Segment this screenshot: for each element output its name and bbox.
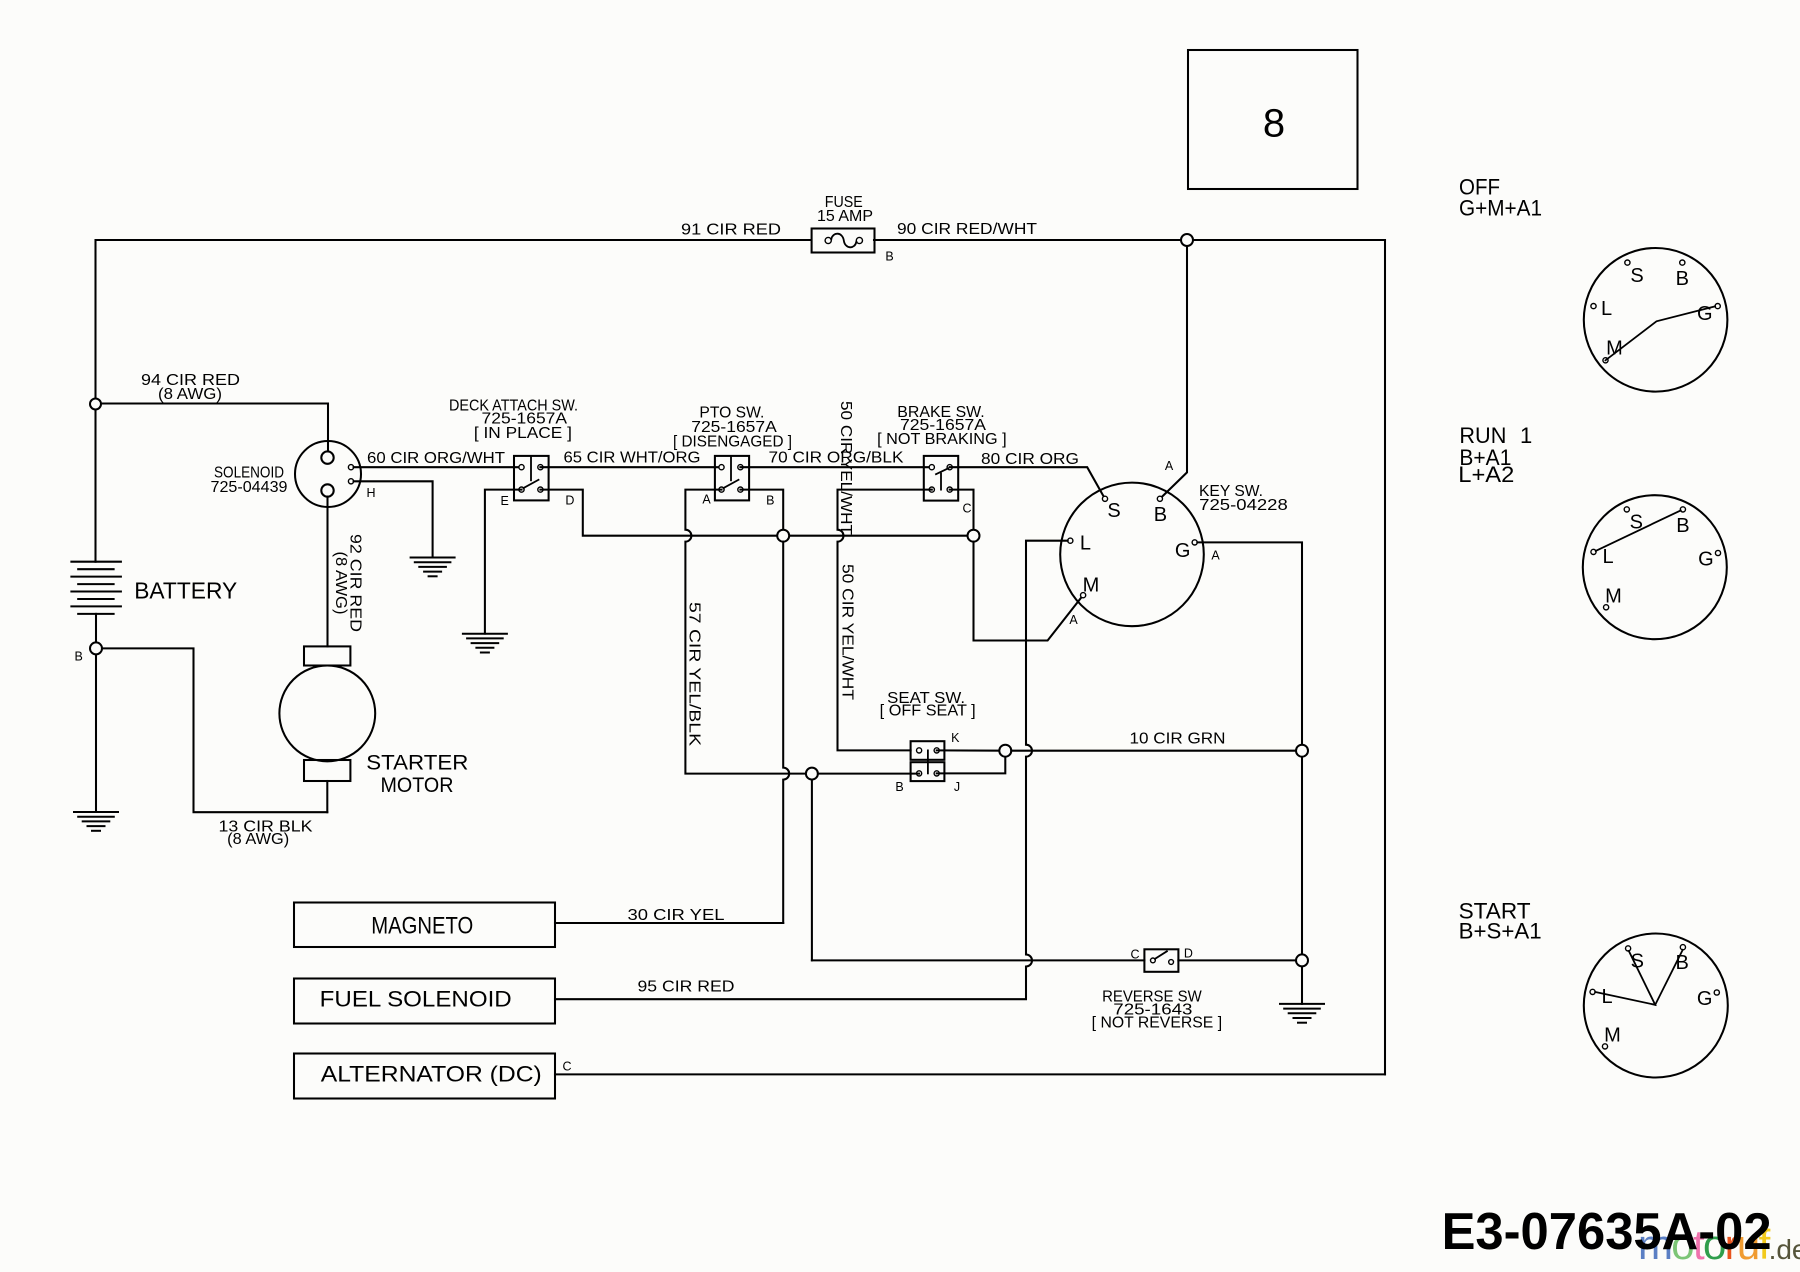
label KEY SW. 725-04228 bbox=[1199, 483, 1288, 514]
label BATTERY bbox=[134, 577, 237, 603]
svg-text:L: L bbox=[1602, 986, 1613, 1008]
svg-text:A: A bbox=[1069, 613, 1078, 627]
wire reverse switch D to bus node bbox=[1178, 959, 1302, 961]
svg-text:S: S bbox=[1107, 500, 1120, 522]
pin label D of reverse switch bbox=[1184, 946, 1193, 960]
svg-text:70 CIR ORG/BLK: 70 CIR ORG/BLK bbox=[769, 450, 905, 467]
label DECK ATTACH SW. 725-1657A [ IN PLACE ] bbox=[449, 398, 578, 443]
svg-text:S: S bbox=[1631, 950, 1644, 972]
wire 90 CIR RED/WHT from fuse to right bus corner bbox=[874, 239, 1385, 241]
svg-text:[ NOT BRAKING ]: [ NOT BRAKING ] bbox=[877, 431, 1007, 448]
ground for deck switch E bbox=[462, 634, 508, 653]
wire magneto riser down with hop bbox=[783, 542, 789, 923]
wire 92 CIR RED solenoid to starter motor bbox=[326, 497, 328, 647]
pin label C of alternator bbox=[562, 1059, 571, 1073]
reverse switch 725-1643 bbox=[1144, 949, 1178, 972]
svg-text:8: 8 bbox=[1263, 102, 1285, 146]
key position diagram RUN 1 bbox=[1583, 495, 1727, 639]
svg-text:10 CIR GRN: 10 CIR GRN bbox=[1130, 730, 1226, 747]
deck attach switch 725-1657A bbox=[514, 456, 549, 501]
wire battery negative down to B node and ground bbox=[95, 614, 97, 812]
alternator box bbox=[294, 1054, 555, 1099]
label 65 CIR WHT/ORG bbox=[564, 450, 701, 467]
key position diagram OFF bbox=[1584, 248, 1728, 392]
svg-text:B+S+A1: B+S+A1 bbox=[1459, 919, 1542, 944]
label 10 CIR GRN bbox=[1130, 730, 1226, 747]
svg-text:(8 AWG): (8 AWG) bbox=[158, 386, 222, 403]
svg-text:725-04228: 725-04228 bbox=[1199, 497, 1288, 514]
label 91 CIR RED bbox=[681, 222, 781, 239]
svg-text:G: G bbox=[1697, 988, 1713, 1010]
label 95 CIR RED bbox=[638, 979, 735, 996]
label BRAKE SW. 725-1657A [ NOT BRAKING ] bbox=[877, 404, 1007, 448]
wire 50 CIR YEL/WHT brake A down with hop to seat switch bbox=[838, 490, 932, 751]
ground for reverse switch bus bbox=[1279, 1004, 1325, 1023]
svg-text:B: B bbox=[1154, 504, 1167, 526]
svg-text:B: B bbox=[75, 650, 83, 664]
svg-text:B: B bbox=[1676, 268, 1689, 290]
svg-text:30 CIR YEL: 30 CIR YEL bbox=[628, 907, 725, 924]
pin label A near key switch G bbox=[1211, 549, 1220, 563]
svg-text:S: S bbox=[1630, 265, 1643, 287]
svg-text:C: C bbox=[1130, 947, 1139, 961]
pin label B of PTO switch bbox=[766, 494, 774, 508]
svg-text:M: M bbox=[1605, 586, 1622, 608]
label ALTERNATOR (DC) bbox=[321, 1062, 542, 1087]
svg-text:60 CIR ORG/WHT: 60 CIR ORG/WHT bbox=[367, 450, 506, 467]
label 70 CIR ORG/BLK bbox=[769, 450, 905, 467]
wire 70 CIR ORG/BLK PTO to brake switch bbox=[740, 466, 931, 468]
svg-text:A: A bbox=[1165, 459, 1174, 473]
svg-text:L: L bbox=[1601, 298, 1612, 320]
node junction 57 wire / seat B / reverse feed bbox=[806, 768, 818, 780]
wire deck switch D down and across to brake C node bbox=[540, 490, 973, 536]
svg-text:[ OFF SEAT ]: [ OFF SEAT ] bbox=[880, 703, 976, 720]
svg-text:MAGNETO: MAGNETO bbox=[371, 912, 473, 939]
svg-text:50 CIR YEL/WHT: 50 CIR YEL/WHT bbox=[837, 401, 854, 536]
svg-text:STARTER: STARTER bbox=[366, 751, 468, 775]
label 50 CIR YEL/WHT rotated upper bbox=[837, 401, 854, 536]
svg-text:K: K bbox=[951, 731, 960, 745]
svg-text:B: B bbox=[1676, 952, 1689, 974]
label E3-07635A-02 bbox=[1442, 1203, 1772, 1261]
wire loop from node to key switch M bbox=[974, 542, 1084, 641]
ground for battery bbox=[73, 812, 119, 831]
svg-text:91 CIR RED: 91 CIR RED bbox=[681, 222, 781, 239]
node junction brake C / deck D line bbox=[968, 530, 980, 542]
wire key switch B feed: vertical drop from top bus node and diagonal to B bbox=[1160, 240, 1187, 499]
svg-text:(8 AWG): (8 AWG) bbox=[332, 552, 349, 615]
svg-text:BATTERY: BATTERY bbox=[134, 577, 237, 603]
ground for solenoid H wire bbox=[410, 558, 456, 577]
solenoid 725-04439 bbox=[295, 441, 361, 507]
pin label K of seat switch bbox=[951, 731, 960, 745]
wire alternator to right bus bbox=[555, 1073, 1385, 1075]
fuel solenoid box bbox=[294, 979, 555, 1024]
svg-text:L+A2: L+A2 bbox=[1458, 462, 1514, 487]
svg-text:1: 1 bbox=[1520, 423, 1532, 448]
svg-text:E3-07635A-02: E3-07635A-02 bbox=[1442, 1203, 1772, 1261]
svg-text:M: M bbox=[1606, 338, 1623, 360]
OFF diagram terminal letters bbox=[1601, 265, 1713, 360]
key switch 725-04228 bbox=[1060, 483, 1204, 627]
svg-text:G: G bbox=[1175, 540, 1191, 562]
wire 10 CIR GRN to right bbox=[1011, 750, 1302, 752]
wire node to seat switch J row bbox=[818, 773, 919, 775]
pin label C of reverse switch bbox=[1130, 947, 1139, 961]
wire key switch G to right vertical bus bbox=[1197, 542, 1302, 1004]
pin label A near key switch M bbox=[1069, 613, 1078, 627]
svg-text:G: G bbox=[1698, 549, 1714, 571]
svg-text:725-04439: 725-04439 bbox=[211, 479, 288, 496]
node junction of seat switch output bbox=[999, 745, 1011, 757]
wire 94 CIR RED from node to solenoid top bbox=[101, 404, 328, 452]
wire reverse switch feed from node down and right bbox=[812, 780, 1145, 961]
svg-text:D: D bbox=[1184, 946, 1193, 960]
pin label H of solenoid bbox=[366, 486, 375, 500]
node junction on top bus bbox=[1181, 234, 1193, 246]
pin label A near key switch B feed bbox=[1165, 459, 1174, 473]
wire 60 CIR ORG/WHT solenoid to deck attach switch bbox=[354, 466, 522, 468]
wire seat K row to 10 CIR GRN node bbox=[937, 749, 1006, 751]
wire key switch L to fuel solenoid 95 CIR RED with hops bbox=[555, 541, 1068, 1000]
label OFF G+M+A1 bbox=[1459, 175, 1542, 221]
label 90 CIR RED/WHT bbox=[897, 221, 1038, 238]
label SOLENOID 725-04439 bbox=[211, 464, 288, 496]
label 30 CIR YEL bbox=[628, 907, 725, 924]
svg-text:M: M bbox=[1604, 1025, 1621, 1047]
label 80 CIR ORG bbox=[981, 451, 1079, 468]
brake switch 725-1657A bbox=[924, 456, 958, 501]
svg-text:15 AMP: 15 AMP bbox=[817, 208, 873, 225]
page number box 8 bbox=[1188, 50, 1358, 189]
svg-text:57 CIR YEL/BLK: 57 CIR YEL/BLK bbox=[686, 602, 703, 747]
svg-text:B: B bbox=[885, 249, 893, 263]
wire 65 CIR WHT/ORG deck to PTO switch bbox=[540, 466, 721, 468]
svg-text:(8 AWG): (8 AWG) bbox=[227, 831, 289, 848]
pin label C of brake switch bbox=[962, 501, 971, 515]
pin label E of deck switch bbox=[501, 494, 509, 508]
node junction PTO B / magneto riser bbox=[777, 530, 789, 542]
svg-text:65 CIR WHT/ORG: 65 CIR WHT/ORG bbox=[564, 450, 701, 467]
starter motor bbox=[279, 646, 375, 812]
wire deck switch E to ground bbox=[485, 490, 522, 634]
label FUSE bbox=[817, 194, 873, 225]
svg-text:H: H bbox=[366, 486, 375, 500]
wire 80 CIR ORG brake to key switch S bbox=[950, 467, 1105, 499]
label 94 CIR RED (8 AWG) bbox=[141, 372, 240, 403]
label MAGNETO bbox=[371, 912, 473, 939]
svg-text:50 CIR YEL/WHT: 50 CIR YEL/WHT bbox=[839, 564, 856, 701]
label PTO SW. 725-1657A [ DISENGAGED ] bbox=[673, 405, 792, 451]
label 50 CIR YEL/WHT rotated lower bbox=[839, 564, 856, 701]
svg-text:J: J bbox=[954, 780, 960, 794]
wire brake C down to node bbox=[950, 490, 974, 536]
seat switch bbox=[911, 741, 945, 781]
svg-text:G+M+A1: G+M+A1 bbox=[1459, 196, 1542, 221]
label 60 CIR ORG/WHT bbox=[367, 450, 506, 467]
wire solenoid H to ground bbox=[354, 481, 433, 557]
label RUN 1 B+A1 L+A2 bbox=[1458, 423, 1532, 487]
label 57 CIR YEL/BLK rotated bbox=[686, 602, 703, 747]
svg-text:M: M bbox=[1083, 574, 1100, 596]
key switch terminal letters S B L G M bbox=[1080, 500, 1191, 597]
svg-text:[ NOT REVERSE ]: [ NOT REVERSE ] bbox=[1092, 1015, 1222, 1032]
RUN diagram terminal letters bbox=[1602, 511, 1713, 607]
svg-text:80 CIR ORG: 80 CIR ORG bbox=[981, 451, 1079, 468]
label FUEL SOLENOID bbox=[320, 987, 512, 1012]
label 92 CIR RED (8 AWG) rotated bbox=[347, 534, 364, 632]
svg-text:E: E bbox=[501, 494, 509, 508]
pin label B of fuse bbox=[885, 249, 893, 263]
wire 13 CIR BLK from B node to starter motor bbox=[102, 648, 327, 812]
node junction of 94 CIR RED tap bbox=[90, 399, 101, 410]
fuse FUSE 15 AMP bbox=[812, 229, 875, 253]
label 13 CIR BLK (8 AWG) bbox=[219, 819, 314, 848]
wire 57 CIR YEL/BLK PTO A down with hop to 812 node bbox=[685, 490, 812, 774]
svg-text:A: A bbox=[702, 492, 711, 506]
svg-text:ALTERNATOR (DC): ALTERNATOR (DC) bbox=[321, 1062, 542, 1087]
svg-text:S: S bbox=[1630, 511, 1643, 533]
watermark motoruf.de bbox=[1638, 1221, 1800, 1268]
pin label B of seat switch bbox=[895, 780, 903, 794]
pin label D of deck switch bbox=[565, 494, 574, 508]
PTO switch 725-1657A bbox=[715, 456, 749, 501]
magneto box bbox=[294, 903, 555, 948]
node B of battery bbox=[90, 642, 102, 654]
wire 91 CIR RED top bus from battery column to fuse bbox=[96, 240, 812, 562]
svg-text:C: C bbox=[562, 1059, 571, 1073]
key position diagram START bbox=[1584, 934, 1728, 1078]
pin label J of seat switch bbox=[954, 780, 960, 794]
label REVERSE SW 725-1643 [ NOT REVERSE ] bbox=[1092, 988, 1222, 1031]
svg-text:A: A bbox=[1211, 549, 1220, 563]
label SEAT SW. [ OFF SEAT ] bbox=[880, 690, 976, 720]
wire right-side bus down to alternator line bbox=[1384, 240, 1386, 1074]
pin label B of battery node bbox=[75, 650, 83, 664]
svg-text:C: C bbox=[962, 501, 971, 515]
svg-text:L: L bbox=[1080, 533, 1091, 555]
battery plates bbox=[71, 562, 121, 614]
svg-text:B: B bbox=[895, 780, 903, 794]
svg-text:B: B bbox=[1676, 515, 1689, 537]
svg-text:G: G bbox=[1697, 303, 1713, 325]
svg-text:L: L bbox=[1602, 546, 1613, 568]
svg-text:[ DISENGAGED ]: [ DISENGAGED ] bbox=[673, 434, 792, 451]
START diagram terminal letters bbox=[1602, 950, 1713, 1046]
svg-text:MOTOR: MOTOR bbox=[381, 773, 454, 797]
svg-text:95 CIR RED: 95 CIR RED bbox=[638, 979, 735, 996]
node junction reverse D / ground bus bbox=[1296, 954, 1308, 966]
svg-text:D: D bbox=[565, 494, 574, 508]
label STARTER MOTOR bbox=[366, 751, 468, 798]
wire seat J row up to 10 CIR GRN node bbox=[937, 757, 1006, 774]
svg-text:B: B bbox=[766, 494, 774, 508]
wire 30 CIR YEL magneto to riser bbox=[555, 922, 783, 924]
node junction 10 CIR GRN / G bus bbox=[1296, 745, 1308, 757]
pin label A of PTO switch bbox=[702, 492, 711, 506]
svg-text:90 CIR RED/WHT: 90 CIR RED/WHT bbox=[897, 221, 1038, 238]
wire PTO B down to node bbox=[740, 490, 783, 536]
svg-text:[ IN PLACE ]: [ IN PLACE ] bbox=[474, 425, 572, 442]
label START B+S+A1 bbox=[1459, 899, 1542, 944]
svg-text:FUEL SOLENOID: FUEL SOLENOID bbox=[320, 987, 512, 1012]
